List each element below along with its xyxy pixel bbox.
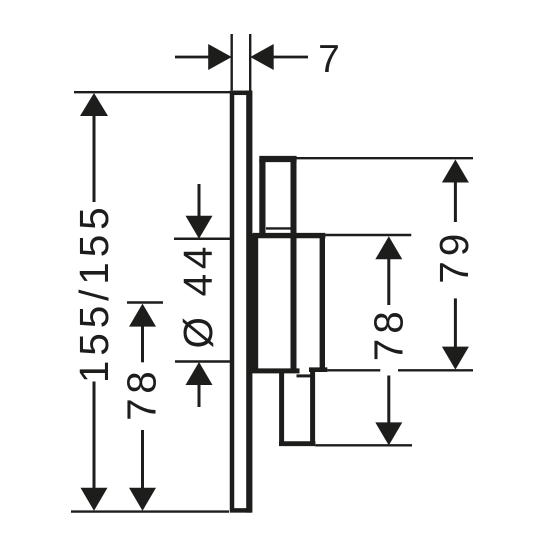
dim 7 right leader: [274, 56, 309, 59]
bottom stub left edge: [279, 371, 284, 443]
top knob outline: [259, 159, 265, 236]
wall plate: [232, 93, 249, 511]
dim d44 extension lower: [175, 360, 230, 363]
arrowhead 78-left down: [129, 488, 156, 511]
svg-text:7: 7: [318, 38, 340, 81]
arrowhead 78-left up: [129, 304, 156, 327]
extension line 155 bottom: [71, 510, 229, 512]
dim 79 line upper: [454, 181, 457, 222]
extension line bottom stub ref: [315, 444, 412, 446]
arrowhead 78-right down: [375, 422, 402, 445]
dim 79 line lower: [454, 298, 457, 347]
mid body bottom edge: [250, 368, 300, 373]
dim 155 line upper: [93, 115, 96, 202]
extension line right 78 top ref: [325, 234, 411, 236]
sleeve right edge: [320, 236, 325, 370]
top knob inner edge: [266, 227, 291, 229]
top knob top edge: [259, 156, 296, 162]
arrowhead 78-right up: [375, 236, 402, 259]
bottom stub right edge: [310, 370, 315, 444]
dim 7 left leader: [175, 56, 209, 59]
arrowhead d44 down (upper): [186, 216, 213, 239]
extension line knob bottom ref right part: [398, 369, 473, 371]
dim 78-right line upper: [387, 258, 390, 305]
arrowhead d44 up (lower): [186, 362, 213, 385]
dim 7 right extension: [249, 34, 251, 92]
dim 78-left line lower: [141, 430, 144, 490]
svg-text:78: 78: [119, 367, 165, 421]
dim d44 extension upper: [174, 237, 230, 240]
arrowhead 79 up: [442, 160, 469, 183]
dim 155 line lower: [93, 382, 96, 490]
arrowhead 155 up: [80, 93, 108, 116]
svg-text:155/155: 155/155: [71, 202, 117, 383]
extension line top right (79 top ref): [296, 157, 473, 159]
mid body top edge: [253, 233, 326, 238]
extension line 78-left top ref: [127, 301, 163, 304]
mid body left edge: [252, 234, 259, 371]
dim d44 line lower: [198, 384, 201, 407]
extension line 155 top: [74, 91, 246, 93]
bottom stub bottom edge: [279, 441, 315, 446]
svg-text:78: 78: [366, 306, 412, 361]
wall plate right edge: [246, 91, 252, 513]
arrowhead 79 down: [442, 347, 469, 370]
junction step edge: [297, 374, 312, 377]
extension line knob bottom ref left part: [327, 369, 380, 371]
dim 78-left line upper: [141, 325, 144, 362]
arrowhead 7 left: [208, 44, 232, 70]
dim 7 left extension: [230, 34, 232, 90]
dim d44 line upper: [198, 184, 201, 217]
arrowhead 155 down: [81, 488, 108, 511]
shared vertical edge: [291, 159, 297, 371]
dim 78-right line lower: [387, 376, 390, 424]
sleeve bottom edge: [309, 367, 327, 372]
svg-text:Ø 44: Ø 44: [175, 242, 221, 349]
svg-text:79: 79: [431, 229, 477, 284]
arrowhead 7 right: [250, 44, 274, 70]
